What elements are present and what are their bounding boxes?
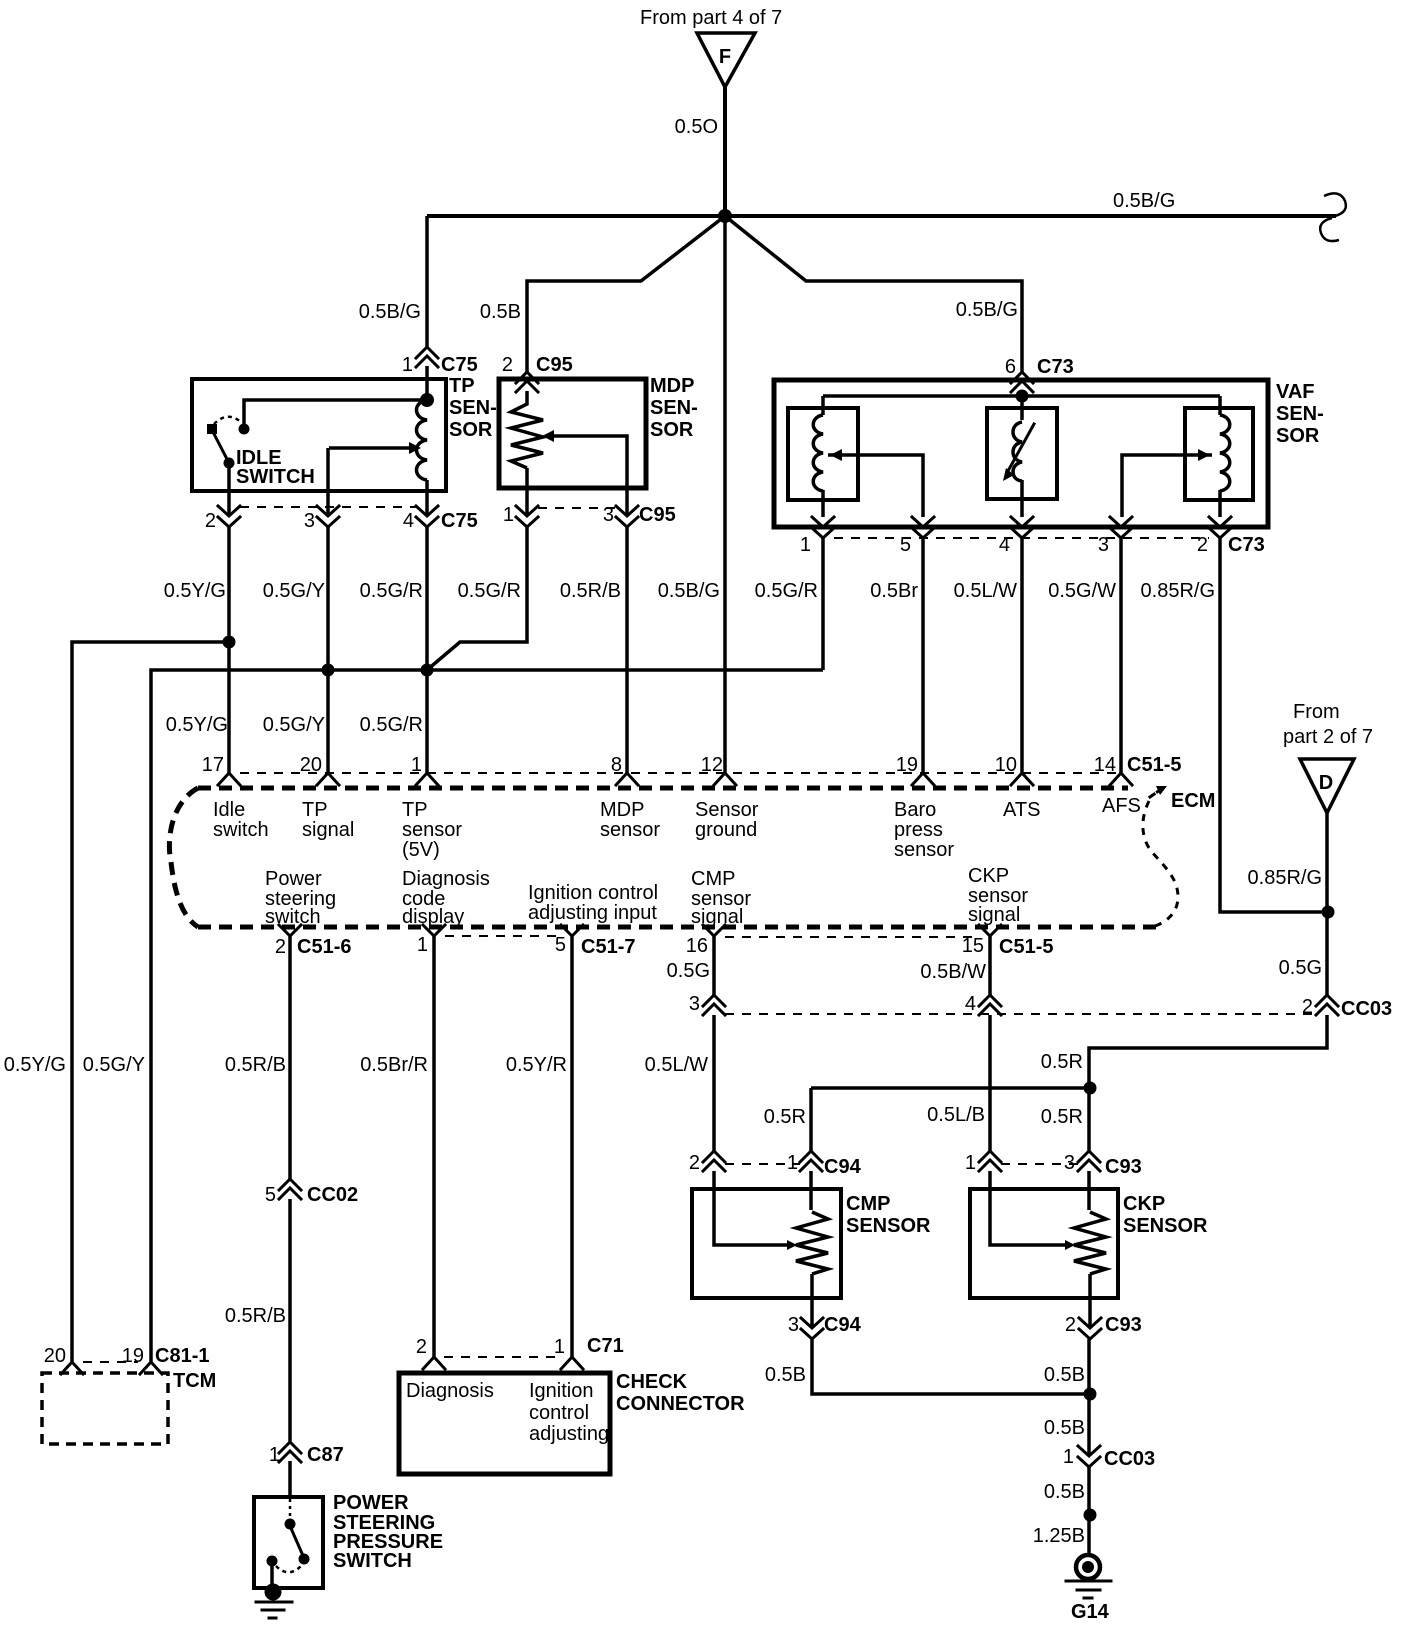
svg-text:0.5B: 0.5B xyxy=(1044,1481,1085,1503)
svg-text:0.5B/G: 0.5B/G xyxy=(1113,190,1175,212)
svg-text:Sensor: Sensor xyxy=(695,799,759,821)
svg-text:2: 2 xyxy=(205,510,216,532)
svg-text:CKP: CKP xyxy=(1123,1193,1165,1215)
svg-text:ATS: ATS xyxy=(1003,799,1040,821)
svg-text:SEN-: SEN- xyxy=(1276,403,1324,425)
svg-text:0.5G/Y: 0.5G/Y xyxy=(263,714,325,736)
svg-text:0.5G/Y: 0.5G/Y xyxy=(83,1054,145,1076)
svg-text:TP: TP xyxy=(449,375,475,397)
svg-text:5: 5 xyxy=(900,534,911,556)
svg-text:3: 3 xyxy=(788,1314,799,1336)
svg-text:TCM: TCM xyxy=(173,1370,216,1392)
svg-text:0.5O: 0.5O xyxy=(675,116,718,138)
svg-text:CMP: CMP xyxy=(691,868,735,890)
svg-text:19: 19 xyxy=(896,754,918,776)
svg-text:Power: Power xyxy=(265,868,322,890)
svg-text:TP: TP xyxy=(402,799,428,821)
svg-text:G14: G14 xyxy=(1071,1601,1110,1623)
svg-text:CC02: CC02 xyxy=(307,1184,358,1206)
svg-text:16: 16 xyxy=(686,935,708,957)
svg-text:2: 2 xyxy=(689,1152,700,1174)
svg-text:0.5B: 0.5B xyxy=(480,301,521,323)
svg-text:1: 1 xyxy=(402,354,413,376)
svg-text:SWITCH: SWITCH xyxy=(333,1550,412,1572)
svg-text:5: 5 xyxy=(555,934,566,956)
svg-text:SOR: SOR xyxy=(650,419,694,441)
svg-text:0.5R/B: 0.5R/B xyxy=(225,1054,286,1076)
svg-text:SWITCH: SWITCH xyxy=(236,466,315,488)
svg-text:0.5Br: 0.5Br xyxy=(870,580,918,602)
svg-text:0.5B/G: 0.5B/G xyxy=(658,580,720,602)
svg-text:20: 20 xyxy=(44,1345,66,1367)
svg-text:Baro: Baro xyxy=(894,799,936,821)
svg-text:Diagnosis: Diagnosis xyxy=(406,1380,494,1402)
svg-text:CC03: CC03 xyxy=(1341,998,1392,1020)
svg-text:C87: C87 xyxy=(307,1444,344,1466)
svg-text:Diagnosis: Diagnosis xyxy=(402,868,490,890)
svg-text:0.5B: 0.5B xyxy=(1044,1364,1085,1386)
svg-text:C94: C94 xyxy=(824,1156,862,1178)
svg-text:8: 8 xyxy=(611,754,622,776)
svg-text:3: 3 xyxy=(1098,534,1109,556)
svg-text:0.5R: 0.5R xyxy=(764,1106,806,1128)
svg-text:0.5Y/R: 0.5Y/R xyxy=(506,1054,567,1076)
svg-text:control: control xyxy=(529,1402,589,1424)
svg-text:Ignition control: Ignition control xyxy=(528,882,658,904)
svg-text:adjusting input: adjusting input xyxy=(528,902,657,924)
svg-text:1: 1 xyxy=(965,1152,976,1174)
svg-text:C73: C73 xyxy=(1228,534,1265,556)
svg-text:display: display xyxy=(402,906,464,928)
svg-text:C93: C93 xyxy=(1105,1314,1142,1336)
svg-text:4: 4 xyxy=(403,510,414,532)
svg-text:CC03: CC03 xyxy=(1104,1448,1155,1470)
svg-text:0.5Y/G: 0.5Y/G xyxy=(4,1054,66,1076)
svg-text:1: 1 xyxy=(554,1336,565,1358)
svg-text:2: 2 xyxy=(275,936,286,958)
svg-text:0.5G/W: 0.5G/W xyxy=(1048,580,1116,602)
svg-text:MDP: MDP xyxy=(600,799,644,821)
svg-text:1: 1 xyxy=(1063,1446,1074,1468)
svg-text:3: 3 xyxy=(1064,1152,1075,1174)
svg-text:From part 4 of 7: From part 4 of 7 xyxy=(640,7,782,29)
svg-text:0.85R/G: 0.85R/G xyxy=(1248,867,1322,889)
svg-text:0.85R/G: 0.85R/G xyxy=(1141,580,1215,602)
svg-text:SEN-: SEN- xyxy=(449,397,497,419)
svg-text:SENSOR: SENSOR xyxy=(1123,1215,1208,1237)
svg-text:1: 1 xyxy=(503,504,514,526)
svg-text:0.5Y/G: 0.5Y/G xyxy=(164,580,226,602)
svg-text:press: press xyxy=(894,819,943,841)
svg-text:0.5G: 0.5G xyxy=(1279,957,1322,979)
svg-text:CMP: CMP xyxy=(846,1193,890,1215)
svg-text:2: 2 xyxy=(1302,996,1313,1018)
svg-text:signal: signal xyxy=(968,904,1020,926)
svg-text:0.5G: 0.5G xyxy=(667,960,710,982)
svg-text:3: 3 xyxy=(689,993,700,1015)
svg-text:5: 5 xyxy=(265,1184,276,1206)
svg-text:adjusting: adjusting xyxy=(529,1423,609,1445)
svg-text:2: 2 xyxy=(1065,1314,1076,1336)
svg-text:1: 1 xyxy=(800,534,811,556)
svg-text:sensor: sensor xyxy=(402,819,462,841)
svg-text:0.5G/R: 0.5G/R xyxy=(360,714,423,736)
svg-text:SEN-: SEN- xyxy=(650,397,698,419)
svg-text:signal: signal xyxy=(691,906,743,928)
svg-text:F: F xyxy=(719,46,731,68)
svg-text:AFS: AFS xyxy=(1102,795,1141,817)
svg-text:14: 14 xyxy=(1094,754,1116,776)
svg-text:Ignition: Ignition xyxy=(529,1380,594,1402)
svg-text:TP: TP xyxy=(302,799,328,821)
svg-text:0.5B/G: 0.5B/G xyxy=(956,299,1018,321)
svg-text:C51-5: C51-5 xyxy=(1127,754,1181,776)
svg-text:0.5G/R: 0.5G/R xyxy=(458,580,521,602)
svg-text:C71: C71 xyxy=(587,1335,624,1357)
svg-text:0.5G/R: 0.5G/R xyxy=(755,580,818,602)
svg-text:19: 19 xyxy=(122,1345,144,1367)
svg-text:0.5L/B: 0.5L/B xyxy=(927,1104,985,1126)
svg-text:3: 3 xyxy=(603,504,614,526)
svg-text:C81-1: C81-1 xyxy=(155,1345,209,1367)
svg-text:17: 17 xyxy=(202,754,224,776)
svg-text:0.5G/R: 0.5G/R xyxy=(360,580,423,602)
svg-text:0.5Y/G: 0.5Y/G xyxy=(166,714,228,736)
svg-text:0.5B/W: 0.5B/W xyxy=(920,961,986,983)
svg-text:1: 1 xyxy=(411,754,422,776)
svg-text:4: 4 xyxy=(999,534,1010,556)
svg-text:10: 10 xyxy=(995,754,1017,776)
svg-text:0.5L/W: 0.5L/W xyxy=(645,1054,708,1076)
svg-text:SOR: SOR xyxy=(449,419,493,441)
svg-text:CKP: CKP xyxy=(968,865,1009,887)
svg-text:2: 2 xyxy=(502,354,513,376)
svg-text:1: 1 xyxy=(417,934,428,956)
svg-text:0.5G/Y: 0.5G/Y xyxy=(263,580,325,602)
svg-text:C51-5: C51-5 xyxy=(999,936,1053,958)
svg-text:1: 1 xyxy=(269,1444,280,1466)
svg-text:4: 4 xyxy=(965,993,976,1015)
svg-text:C93: C93 xyxy=(1105,1156,1142,1178)
svg-text:signal: signal xyxy=(302,819,354,841)
svg-text:CONNECTOR: CONNECTOR xyxy=(616,1393,745,1415)
svg-text:1.25B: 1.25B xyxy=(1033,1525,1085,1547)
svg-text:15: 15 xyxy=(962,935,984,957)
svg-text:VAF: VAF xyxy=(1276,381,1315,403)
svg-text:0.5B: 0.5B xyxy=(765,1364,806,1386)
svg-text:2: 2 xyxy=(416,1336,427,1358)
svg-text:sensor: sensor xyxy=(894,839,954,861)
svg-text:0.5B: 0.5B xyxy=(1044,1417,1085,1439)
svg-text:(5V): (5V) xyxy=(402,839,440,861)
svg-text:D: D xyxy=(1319,772,1333,794)
svg-text:POWER: POWER xyxy=(333,1492,409,1514)
svg-text:C94: C94 xyxy=(824,1314,862,1336)
svg-text:12: 12 xyxy=(701,754,723,776)
svg-text:ECM: ECM xyxy=(1171,790,1215,812)
svg-text:2: 2 xyxy=(1197,534,1208,556)
svg-text:3: 3 xyxy=(304,510,315,532)
svg-text:sensor: sensor xyxy=(600,819,660,841)
svg-text:1: 1 xyxy=(787,1152,798,1174)
svg-text:C51-6: C51-6 xyxy=(297,936,351,958)
svg-text:20: 20 xyxy=(300,754,322,776)
svg-text:C51-7: C51-7 xyxy=(581,936,635,958)
svg-text:MDP: MDP xyxy=(650,375,694,397)
svg-text:CHECK: CHECK xyxy=(616,1371,688,1393)
svg-text:C75: C75 xyxy=(441,354,478,376)
svg-text:switch: switch xyxy=(265,906,321,928)
svg-text:6: 6 xyxy=(1005,356,1016,378)
svg-text:Idle: Idle xyxy=(213,799,245,821)
svg-text:ground: ground xyxy=(695,819,757,841)
svg-text:switch: switch xyxy=(213,819,269,841)
svg-text:0.5R/B: 0.5R/B xyxy=(225,1305,286,1327)
svg-text:C73: C73 xyxy=(1037,356,1074,378)
svg-text:0.5R: 0.5R xyxy=(1041,1106,1083,1128)
svg-text:0.5B/G: 0.5B/G xyxy=(359,301,421,323)
svg-text:0.5R/B: 0.5R/B xyxy=(560,580,621,602)
svg-text:C95: C95 xyxy=(639,504,676,526)
svg-text:SENSOR: SENSOR xyxy=(846,1215,931,1237)
svg-text:0.5L/W: 0.5L/W xyxy=(954,580,1017,602)
svg-text:0.5R: 0.5R xyxy=(1041,1051,1083,1073)
svg-text:From: From xyxy=(1293,701,1340,723)
svg-text:0.5Br/R: 0.5Br/R xyxy=(360,1054,428,1076)
svg-text:SOR: SOR xyxy=(1276,425,1320,447)
svg-text:C75: C75 xyxy=(441,510,478,532)
svg-text:part 2 of 7: part 2 of 7 xyxy=(1283,726,1373,748)
svg-text:C95: C95 xyxy=(536,354,573,376)
